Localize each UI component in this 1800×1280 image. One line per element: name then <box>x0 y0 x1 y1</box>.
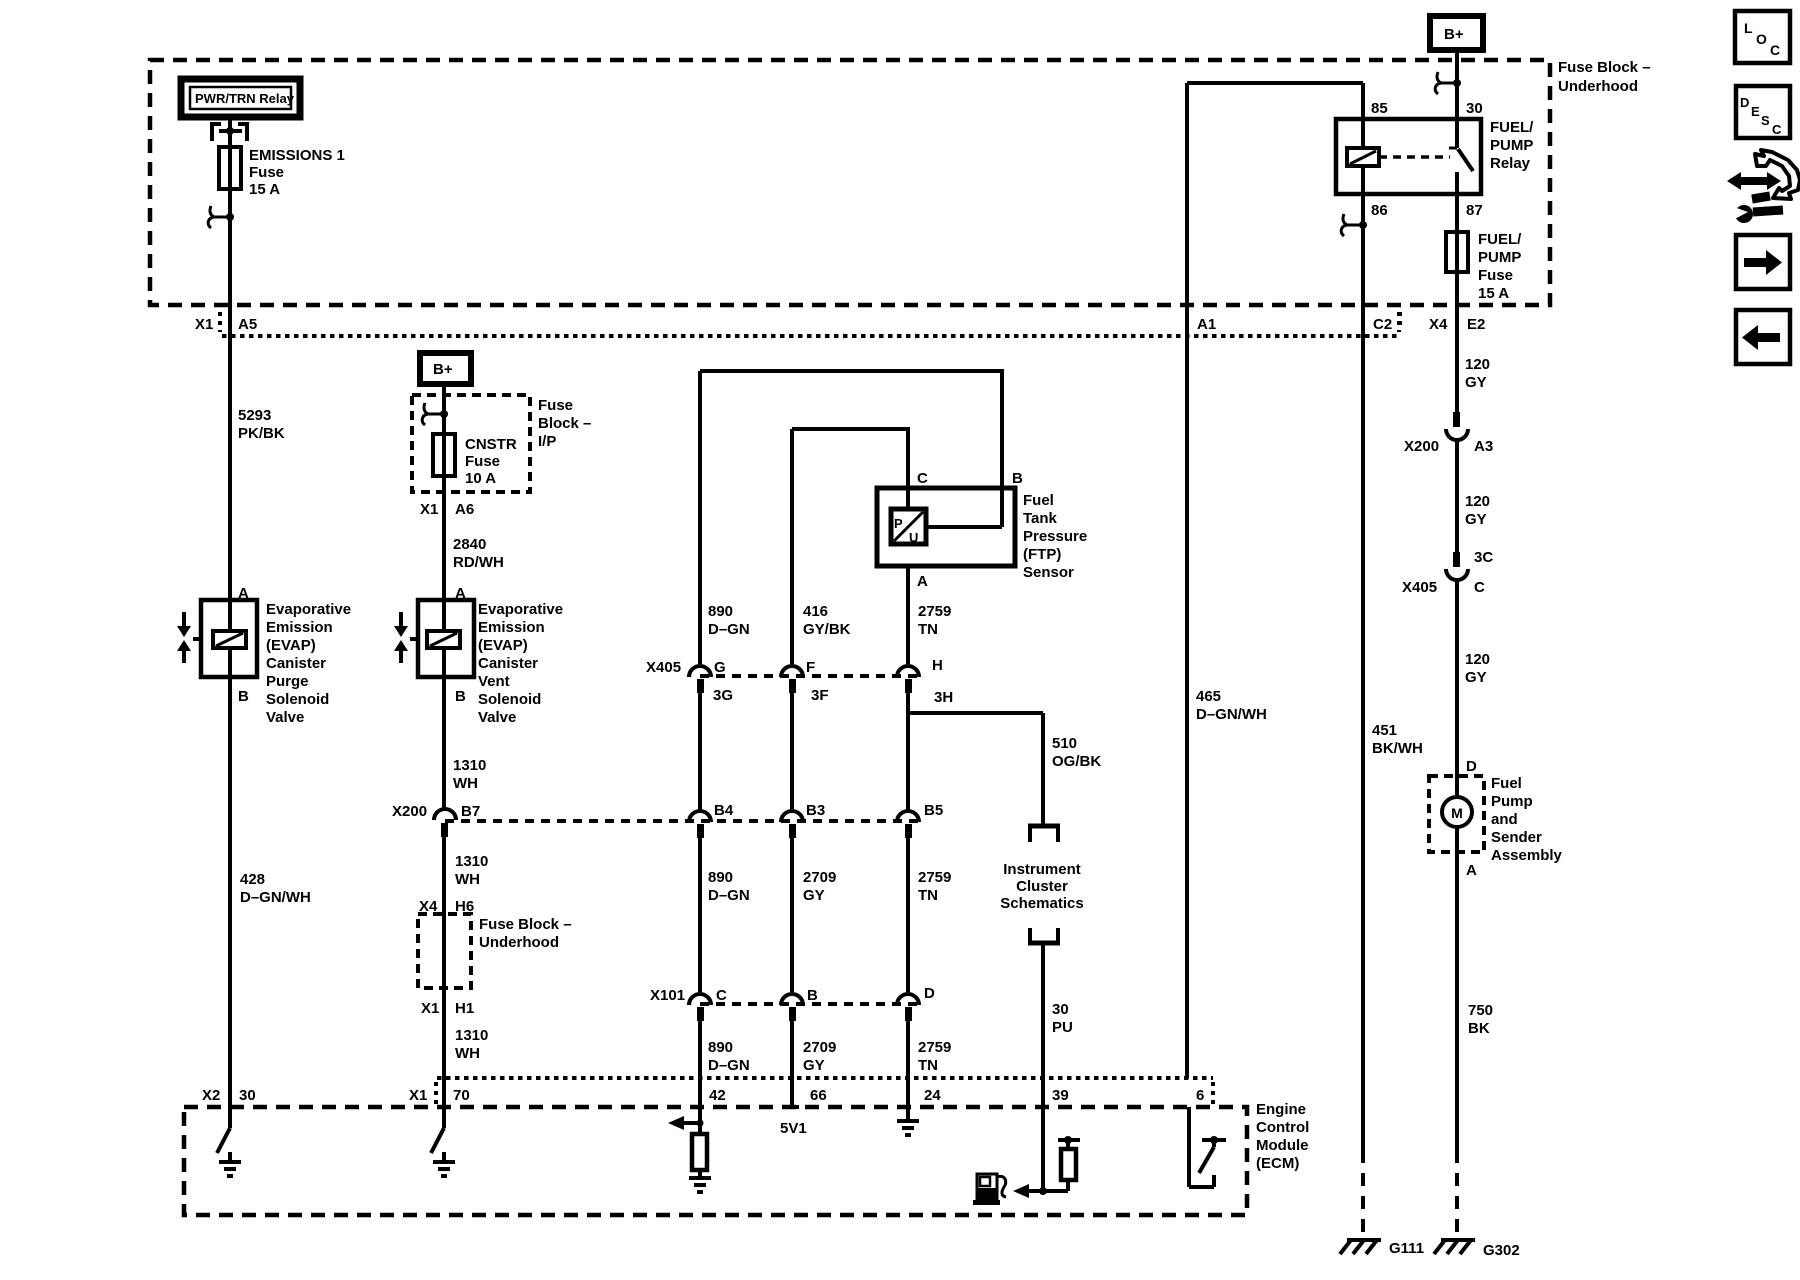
wire 2709 GY middle <box>792 679 836 904</box>
connector X405 F <box>781 666 803 693</box>
svg-text:1310: 1310 <box>455 1027 488 1044</box>
svg-text:3C: 3C <box>1474 549 1493 566</box>
svg-text:GY: GY <box>1465 511 1487 528</box>
svg-text:and: and <box>1491 811 1518 828</box>
svg-text:Fuse: Fuse <box>538 397 573 414</box>
svg-text:Sensor: Sensor <box>1023 564 1074 581</box>
connector X1 A6 labels <box>420 501 474 518</box>
legend icon DESC box <box>1736 86 1790 138</box>
svg-text:42: 42 <box>709 1087 726 1104</box>
ECM internal ground for pin 30 <box>219 1152 241 1176</box>
wire fuse to E2 <box>1455 272 1459 412</box>
svg-text:X4: X4 <box>1429 316 1448 333</box>
svg-text:FUEL/: FUEL/ <box>1490 119 1534 136</box>
svg-text:A5: A5 <box>238 316 257 333</box>
svg-text:WH: WH <box>455 1045 480 1062</box>
relay pin labels 86 87 <box>1371 202 1483 219</box>
svg-text:D–GN: D–GN <box>708 1057 750 1074</box>
wire fuse to splice <box>228 189 232 305</box>
svg-text:Emission: Emission <box>266 619 333 636</box>
svg-text:85: 85 <box>1371 100 1388 117</box>
svg-text:O: O <box>1756 31 1767 47</box>
svg-text:RD/WH: RD/WH <box>453 554 504 571</box>
svg-text:Underhood: Underhood <box>479 934 559 951</box>
svg-text:X101: X101 <box>650 987 685 1004</box>
wire 465 D-GN/WH <box>1187 336 1267 1078</box>
svg-text:3H: 3H <box>934 689 953 706</box>
svg-text:EMISSIONS 1: EMISSIONS 1 <box>249 147 345 164</box>
connector X1 H1 labels <box>421 1000 474 1017</box>
svg-text:Relay: Relay <box>1490 155 1531 172</box>
svg-text:15 A: 15 A <box>249 181 280 198</box>
wire 2759 TN upper <box>908 566 951 664</box>
svg-text:Solenoid: Solenoid <box>478 691 541 708</box>
ECM internal switch for pin 70 <box>431 1128 444 1153</box>
svg-text:X200: X200 <box>392 803 427 820</box>
svg-text:B: B <box>807 987 818 1004</box>
cavity labels 3G 3F 3H <box>713 687 953 706</box>
legend icon back arrow box <box>1736 310 1790 364</box>
relay actuating dashed link <box>1379 155 1450 159</box>
svg-text:Valve: Valve <box>478 709 516 726</box>
svg-text:X1: X1 <box>409 1087 427 1104</box>
svg-text:750: 750 <box>1468 1002 1493 1019</box>
svg-text:Canister: Canister <box>478 655 538 672</box>
svg-text:Purge: Purge <box>266 673 309 690</box>
svg-text:Fuse: Fuse <box>1478 267 1513 284</box>
svg-text:86: 86 <box>1371 202 1388 219</box>
fuse EMISSIONS 1 15A <box>219 147 345 198</box>
svg-text:2759: 2759 <box>918 603 951 620</box>
wire 120 GY upper <box>1465 356 1490 391</box>
svg-text:B3: B3 <box>806 802 825 819</box>
wire 2759 TN middle with branch to 510 <box>908 679 1043 904</box>
svg-text:H: H <box>932 657 943 674</box>
svg-text:C: C <box>1772 122 1782 137</box>
wire 86 to C2 <box>1361 194 1365 336</box>
svg-text:Instrument: Instrument <box>1003 861 1081 878</box>
svg-text:WH: WH <box>455 871 480 888</box>
svg-text:Canister: Canister <box>266 655 326 672</box>
connector X1 A5 labels <box>195 312 257 333</box>
legend icon forward arrow box <box>1736 235 1790 289</box>
wire 890 D-GN upper <box>700 371 750 664</box>
wire 120 GY lower <box>1457 578 1490 776</box>
svg-text:Engine: Engine <box>1256 1101 1306 1118</box>
fuel pump motor M <box>1442 797 1472 852</box>
svg-text:1310: 1310 <box>453 757 486 774</box>
svg-text:A: A <box>917 573 928 590</box>
svg-text:D–GN: D–GN <box>708 887 750 904</box>
svg-text:B+: B+ <box>1444 26 1464 43</box>
svg-text:428: 428 <box>240 871 265 888</box>
svg-text:B+: B+ <box>433 361 453 378</box>
connector X200 B4 <box>689 802 734 838</box>
ECM pin number labels <box>709 1087 1204 1104</box>
wire FTP pin B jumper to 890 D-GN <box>700 369 1004 527</box>
svg-text:X2: X2 <box>202 1087 220 1104</box>
svg-text:E2: E2 <box>1467 316 1485 333</box>
svg-text:890: 890 <box>708 603 733 620</box>
connector X200 B5 <box>897 802 943 838</box>
ECM internal switch for pin 30 <box>217 1128 230 1153</box>
svg-text:M: M <box>1451 805 1463 821</box>
ground lead dashed G302 <box>1455 1150 1459 1238</box>
svg-text:Fuel: Fuel <box>1491 775 1522 792</box>
svg-text:120: 120 <box>1465 493 1490 510</box>
svg-text:Cluster: Cluster <box>1016 878 1068 895</box>
svg-text:A6: A6 <box>455 501 474 518</box>
svg-text:D–GN: D–GN <box>708 621 750 638</box>
svg-text:X405: X405 <box>646 659 681 676</box>
svg-text:Fuse: Fuse <box>465 453 500 470</box>
splice clip symbol on 86 wire <box>1341 214 1367 236</box>
svg-text:Module: Module <box>1256 1137 1309 1154</box>
svg-text:Control: Control <box>1256 1119 1309 1136</box>
connector X4 H6 labels <box>419 898 474 915</box>
wire 1310 WH middle <box>444 823 488 914</box>
svg-text:Evaporative: Evaporative <box>478 601 563 618</box>
svg-text:(ECM): (ECM) <box>1256 1155 1299 1172</box>
legend icon repair wrench arrows <box>1727 150 1800 223</box>
svg-text:Valve: Valve <box>266 709 304 726</box>
relay coil <box>1347 119 1379 194</box>
svg-text:890: 890 <box>708 1039 733 1056</box>
svg-text:Fuse Block –: Fuse Block – <box>479 916 572 933</box>
svg-text:I/P: I/P <box>538 433 556 450</box>
svg-text:15 A: 15 A <box>1478 285 1509 302</box>
svg-text:465: 465 <box>1196 688 1221 705</box>
svg-text:6: 6 <box>1196 1087 1204 1104</box>
svg-text:GY/BK: GY/BK <box>803 621 851 638</box>
svg-text:(EVAP): (EVAP) <box>266 637 316 654</box>
connector X101 row labels <box>650 985 935 1004</box>
svg-text:G: G <box>714 659 726 676</box>
svg-text:B: B <box>1012 470 1023 487</box>
svg-text:Tank: Tank <box>1023 510 1058 527</box>
wire FTP pin C jumper to 416 GY/BK <box>792 427 910 664</box>
svg-text:H1: H1 <box>455 1000 474 1017</box>
svg-text:G302: G302 <box>1483 1242 1520 1259</box>
svg-text:BK/WH: BK/WH <box>1372 740 1423 757</box>
svg-text:X1: X1 <box>195 316 213 333</box>
svg-text:70: 70 <box>453 1087 470 1104</box>
svg-text:510: 510 <box>1052 735 1077 752</box>
connector X200 B3 <box>781 802 825 838</box>
svg-text:PWR/TRN Relay: PWR/TRN Relay <box>195 91 295 106</box>
svg-text:87: 87 <box>1466 202 1483 219</box>
svg-text:TN: TN <box>918 621 938 638</box>
wire 2759 TN lower <box>908 824 951 1074</box>
svg-text:Schematics: Schematics <box>1000 895 1083 912</box>
svg-text:A: A <box>1466 862 1477 879</box>
svg-text:D: D <box>924 985 935 1002</box>
svg-text:FUEL/: FUEL/ <box>1478 231 1522 248</box>
svg-text:Sender: Sender <box>1491 829 1542 846</box>
svg-text:C: C <box>716 987 727 1004</box>
connector X101 C <box>689 994 711 1021</box>
svg-text:Fuse Block –: Fuse Block – <box>1558 59 1651 76</box>
connector X405 H <box>897 666 919 693</box>
svg-text:D: D <box>1466 758 1477 775</box>
svg-text:PUMP: PUMP <box>1478 249 1521 266</box>
svg-text:WH: WH <box>453 775 478 792</box>
connector row labels A1 C2 X4 E2 <box>1197 312 1485 333</box>
svg-text:G111: G111 <box>1389 1240 1424 1257</box>
wire 890 D-GN middle <box>700 679 750 904</box>
svg-text:BK: BK <box>1468 1020 1490 1037</box>
svg-text:C: C <box>1770 42 1780 58</box>
svg-text:24: 24 <box>924 1087 941 1104</box>
ECM pin X2 30 labels <box>202 1087 256 1104</box>
svg-text:Emission: Emission <box>478 619 545 636</box>
wire relay coil feed to A1 branch <box>1187 83 1363 336</box>
svg-text:S: S <box>1761 113 1770 128</box>
svg-text:D: D <box>1740 95 1749 110</box>
svg-text:GY: GY <box>803 1057 825 1074</box>
svg-text:OG/BK: OG/BK <box>1052 753 1101 770</box>
wire 890 D-GN lower <box>700 824 750 1074</box>
wire 2759 TN to ECM pin 24 <box>906 1007 910 1121</box>
connector X200 A3 <box>1404 412 1493 455</box>
svg-text:30: 30 <box>1466 100 1483 117</box>
svg-text:A3: A3 <box>1474 438 1493 455</box>
ECM internal node at pin 39 <box>1013 1184 1068 1198</box>
svg-text:D–GN/WH: D–GN/WH <box>240 889 311 906</box>
dotted pass-through connector row top <box>222 312 1399 336</box>
svg-text:Underhood: Underhood <box>1558 78 1638 95</box>
svg-text:Solenoid: Solenoid <box>266 691 329 708</box>
svg-text:X405: X405 <box>1402 579 1437 596</box>
svg-text:B7: B7 <box>461 803 480 820</box>
relay switch 30 to 87 <box>1449 119 1473 232</box>
X101 pass-through dashed row <box>700 1002 920 1006</box>
svg-text:GY: GY <box>803 887 825 904</box>
engine control module ECM dashed box <box>184 1101 1309 1215</box>
svg-text:5293: 5293 <box>238 407 271 424</box>
wire 2709 GY lower <box>792 824 836 1074</box>
svg-text:U: U <box>909 530 918 545</box>
svg-text:Fuse: Fuse <box>249 164 284 181</box>
ground lead dashed G111 <box>1361 1150 1365 1238</box>
svg-text:2840: 2840 <box>453 536 486 553</box>
svg-text:39: 39 <box>1052 1087 1069 1104</box>
svg-text:(FTP): (FTP) <box>1023 546 1061 563</box>
ECM internal pull-up resistor at pin 39 <box>1058 1136 1080 1191</box>
svg-text:2709: 2709 <box>803 869 836 886</box>
connector X101 B <box>781 994 803 1021</box>
wire 2709 GY to ECM pin 66 <box>790 1007 794 1107</box>
svg-text:P: P <box>894 516 903 531</box>
svg-text:66: 66 <box>810 1087 827 1104</box>
wire 750 BK <box>1457 852 1493 1150</box>
svg-text:451: 451 <box>1372 722 1397 739</box>
svg-text:5V1: 5V1 <box>780 1120 807 1137</box>
wire 1310 WH upper <box>444 677 486 808</box>
svg-text:30: 30 <box>1052 1001 1069 1018</box>
X200 pass-through dashed row <box>445 819 920 823</box>
svg-text:GY: GY <box>1465 669 1487 686</box>
FTP P/U transducer element <box>891 509 926 545</box>
svg-text:PU: PU <box>1052 1019 1073 1036</box>
splice clip symbol in I/P fuse block <box>422 395 448 434</box>
svg-text:2709: 2709 <box>803 1039 836 1056</box>
svg-text:X1: X1 <box>421 1000 439 1017</box>
ECM internal signal arrow at pin 42 <box>668 1116 704 1130</box>
legend icon LOC box <box>1735 11 1790 63</box>
connector X200 B7 <box>392 803 480 837</box>
ECM internal ground at pin 24 <box>897 1121 919 1135</box>
wire from PWR/TRN relay down <box>228 117 232 147</box>
splice clip symbol on left feed <box>208 206 234 228</box>
svg-text:Evaporative: Evaporative <box>266 601 351 618</box>
svg-text:B5: B5 <box>924 802 943 819</box>
wire 5293 PK/BK <box>230 305 285 600</box>
svg-text:Pressure: Pressure <box>1023 528 1087 545</box>
fuse block underhood dashed box <box>150 59 1651 305</box>
instrument cluster schematics reference <box>1000 826 1083 943</box>
ground G302 <box>1434 1240 1520 1259</box>
wire 510 OG/BK <box>1043 713 1101 826</box>
svg-text:Pump: Pump <box>1491 793 1533 810</box>
connector X405 C <box>1402 549 1493 596</box>
svg-text:3G: 3G <box>713 687 733 704</box>
EVAP canister vent solenoid valve <box>394 585 563 726</box>
svg-text:2759: 2759 <box>918 1039 951 1056</box>
wire 416 GY/BK label <box>803 603 851 638</box>
PWR/TRN Relay label box <box>181 79 300 117</box>
wire through underhood fuse block <box>442 914 446 988</box>
svg-text:B: B <box>238 688 249 705</box>
svg-text:C: C <box>1474 579 1485 596</box>
fuse CNSTR 10A <box>433 434 517 487</box>
ECM internal 5V1 reference at pin 66 <box>780 1107 807 1137</box>
ECM pin X1 70 labels <box>409 1087 470 1104</box>
ECM connector dotted row <box>436 1078 1213 1104</box>
connector X405 G <box>689 666 711 693</box>
svg-text:890: 890 <box>708 869 733 886</box>
splice clip symbol below B+ <box>1435 72 1461 94</box>
fuel gauge icon <box>973 1174 1006 1205</box>
X405 pass-through dashed row <box>700 674 920 678</box>
svg-text:(EVAP): (EVAP) <box>478 637 528 654</box>
svg-text:Block –: Block – <box>538 415 591 432</box>
svg-text:PK/BK: PK/BK <box>238 425 285 442</box>
svg-text:X200: X200 <box>1404 438 1439 455</box>
ECM internal ground at pin 42 <box>689 1178 711 1192</box>
B+ power feed box (I/P) <box>420 353 471 395</box>
ECM internal resistor at pin 42 <box>692 1134 707 1178</box>
ground G111 <box>1340 1240 1424 1257</box>
svg-text:C2: C2 <box>1373 316 1392 333</box>
svg-text:TN: TN <box>918 1057 938 1074</box>
wire 890 D-GN to ECM pin 42 <box>698 1007 702 1134</box>
svg-text:2759: 2759 <box>918 869 951 886</box>
fuse clip bracket at EMISSIONS 1 fuse <box>212 124 247 141</box>
wire 120 GY middle <box>1457 438 1490 552</box>
svg-text:10 A: 10 A <box>465 470 496 487</box>
svg-text:F: F <box>806 659 815 676</box>
wire 2840 RD/WH <box>444 476 504 600</box>
fuse block underhood small dashed box <box>418 914 572 988</box>
fuse FUEL/PUMP 15A <box>1446 231 1522 302</box>
svg-text:A1: A1 <box>1197 316 1216 333</box>
svg-text:D–GN/WH: D–GN/WH <box>1196 706 1267 723</box>
connector X101 D <box>897 994 919 1021</box>
svg-text:Vent: Vent <box>478 673 510 690</box>
svg-text:1310: 1310 <box>455 853 488 870</box>
connector X405 row labels <box>646 657 943 676</box>
wire 30 PU <box>1043 944 1073 1191</box>
svg-text:120: 120 <box>1465 356 1490 373</box>
ECM internal ground for pin 70 <box>433 1152 455 1176</box>
fuel pump relay <box>1336 100 1534 194</box>
wire 451 BK/WH <box>1363 336 1423 1150</box>
svg-text:L: L <box>1744 20 1753 36</box>
svg-text:3F: 3F <box>811 687 829 704</box>
svg-text:X1: X1 <box>420 501 438 518</box>
EVAP canister purge solenoid valve <box>177 585 351 726</box>
svg-text:E: E <box>1751 104 1760 119</box>
svg-text:Fuel: Fuel <box>1023 492 1054 509</box>
fuse block I/P dashed box <box>412 395 591 492</box>
svg-text:CNSTR: CNSTR <box>465 436 517 453</box>
svg-text:120: 120 <box>1465 651 1490 668</box>
wire 428 D-GN/WH <box>230 677 311 1128</box>
svg-text:Assembly: Assembly <box>1491 847 1563 864</box>
svg-text:416: 416 <box>803 603 828 620</box>
fuel pump and sender assembly <box>1429 758 1563 864</box>
svg-text:B: B <box>455 688 466 705</box>
fuel tank pressure FTP sensor <box>877 488 1087 581</box>
B+ power feed box top right <box>1430 16 1483 119</box>
svg-text:B4: B4 <box>714 802 734 819</box>
svg-text:30: 30 <box>239 1087 256 1104</box>
svg-text:TN: TN <box>918 887 938 904</box>
svg-text:PUMP: PUMP <box>1490 137 1533 154</box>
svg-text:GY: GY <box>1465 374 1487 391</box>
wire 1310 WH lower <box>444 988 488 1128</box>
svg-text:C: C <box>917 470 928 487</box>
ECM internal switch at pin 6 <box>1189 1107 1226 1187</box>
